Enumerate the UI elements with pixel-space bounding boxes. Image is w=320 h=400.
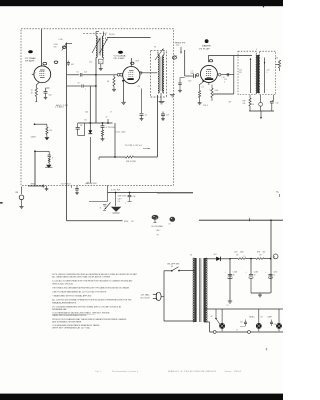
svg-text:R17: R17 bbox=[235, 252, 238, 254]
svg-text:Fig. 7: Fig. 7 bbox=[96, 371, 102, 373]
svg-text:V2 6CB6A: V2 6CB6A bbox=[114, 55, 127, 58]
svg-text:.01: .01 bbox=[145, 115, 147, 117]
svg-text:4.5: 4.5 bbox=[99, 62, 101, 64]
svg-text:C11: C11 bbox=[224, 79, 227, 81]
svg-text:T4: T4 bbox=[190, 255, 192, 257]
svg-text:WITH SET OPERATING AT 117 V AC: WITH SET OPERATING AT 117 V AC bbox=[52, 327, 91, 330]
svg-text:470: 470 bbox=[239, 72, 242, 74]
svg-text:WAFER SWITCH SHOWN IN AM POSIT: WAFER SWITCH SHOWN IN AM POSITION bbox=[52, 314, 86, 317]
svg-text:1.5: 1.5 bbox=[191, 71, 193, 73]
svg-text:TEST PT: TEST PT bbox=[175, 42, 187, 44]
svg-text:T2: T2 bbox=[154, 47, 156, 49]
svg-text:60 CYCLE: 60 CYCLE bbox=[141, 297, 151, 299]
svg-text:1000: 1000 bbox=[240, 252, 244, 254]
svg-text:C19: C19 bbox=[166, 115, 169, 117]
svg-text:AM 7: AM 7 bbox=[157, 229, 161, 232]
svg-text:5: 5 bbox=[35, 72, 36, 74]
svg-text:K: K bbox=[52, 158, 53, 160]
svg-text:TP2: TP2 bbox=[176, 45, 179, 47]
svg-text:270: 270 bbox=[275, 58, 278, 60]
svg-text:21: 21 bbox=[105, 33, 107, 35]
svg-text:C15 .005: C15 .005 bbox=[116, 131, 126, 133]
svg-text:* MEASURED WITH NO SIGNAL APPL: * MEASURED WITH NO SIGNAL APPLIED bbox=[52, 295, 92, 298]
svg-text:C16: C16 bbox=[276, 103, 279, 105]
svg-text:C15: C15 bbox=[267, 70, 270, 72]
svg-text:MEASUREMENTS: MEASUREMENTS bbox=[52, 301, 77, 304]
svg-text:ON-OFF SW: ON-OFF SW bbox=[167, 263, 180, 265]
svg-text:40: 40 bbox=[233, 274, 235, 276]
svg-text:VID. IF AMP: VID. IF AMP bbox=[114, 57, 126, 60]
svg-text:LINE VOLTAGE MAINTAINED AT 117: LINE VOLTAGE MAINTAINED AT 117 VOLTS AC … bbox=[52, 291, 107, 294]
svg-text:MINIMUM: MINIMUM bbox=[52, 309, 66, 311]
svg-text:TO PIN 1 OF V4: TO PIN 1 OF V4 bbox=[125, 145, 142, 147]
svg-text:4700: 4700 bbox=[124, 221, 128, 223]
svg-text:C6: C6 bbox=[80, 125, 82, 127]
svg-text:C10: C10 bbox=[188, 81, 191, 83]
svg-text:.001: .001 bbox=[71, 64, 74, 66]
svg-text:12AX7: 12AX7 bbox=[31, 135, 36, 138]
svg-text:5: 5 bbox=[267, 72, 268, 74]
svg-text:Schematic (cont.): Schematic (cont.) bbox=[112, 370, 138, 373]
svg-text:RADIO & TELEVISION NEWS: RADIO & TELEVISION NEWS bbox=[168, 370, 217, 373]
svg-text:SHOULD HOLD: SHOULD HOLD bbox=[52, 283, 74, 285]
svg-text:V4B OSC: V4B OSC bbox=[118, 196, 128, 198]
svg-text:TO PIN 3: TO PIN 3 bbox=[61, 183, 71, 185]
svg-text:NOTE: UNLESS OTHERWISE SPECIFI: NOTE: UNLESS OTHERWISE SPECIFIED ALL RES… bbox=[52, 273, 138, 276]
svg-text:117 VAC: 117 VAC bbox=[141, 294, 151, 297]
svg-text:C18: C18 bbox=[133, 196, 136, 198]
svg-text:5: 5 bbox=[224, 82, 225, 84]
svg-text:22 (2L): 22 (2L) bbox=[109, 34, 115, 36]
svg-text:VOLTAGE AND RESISTANCE READING: VOLTAGE AND RESISTANCE READINGS TAKEN bbox=[52, 324, 100, 327]
svg-text:S3: S3 bbox=[171, 266, 173, 268]
svg-text:470: 470 bbox=[263, 252, 266, 254]
svg-text:C5: C5 bbox=[77, 71, 79, 73]
svg-text:NO SIGNAL: NO SIGNAL bbox=[152, 225, 164, 228]
svg-text:THE SYMBOL (FD) DESIGNATES A F: THE SYMBOL (FD) DESIGNATES A FEEDTHROUGH… bbox=[52, 286, 130, 289]
svg-text:470: 470 bbox=[54, 47, 57, 49]
svg-text:150: 150 bbox=[49, 94, 52, 96]
svg-text:22: 22 bbox=[106, 117, 108, 119]
svg-text:20: 20 bbox=[273, 274, 275, 276]
svg-text:20: 20 bbox=[254, 274, 256, 276]
svg-text:AND SCHEMATIC SHOWN HERE: AND SCHEMATIC SHOWN HERE bbox=[52, 320, 82, 323]
svg-text:4.7K R6: 4.7K R6 bbox=[106, 127, 115, 129]
svg-text:4.7K R9: 4.7K R9 bbox=[111, 189, 120, 191]
svg-text:SE-1: SE-1 bbox=[214, 254, 218, 256]
svg-text:ALL CONTROLS AT NORMAL OPERATI: ALL CONTROLS AT NORMAL OPERATING POSITIO… bbox=[52, 299, 132, 302]
svg-text:C14: C14 bbox=[239, 70, 242, 72]
svg-text:V3 IF-AF: V3 IF-AF bbox=[199, 47, 211, 50]
svg-text:June, 1954: June, 1954 bbox=[224, 371, 242, 373]
svg-text:R8 470K: R8 470K bbox=[126, 161, 137, 163]
svg-text:K-1,000 ALL VOLTAGES READ WITH: K-1,000 ALL VOLTAGES READ WITH VTVM FROM… bbox=[52, 280, 132, 283]
svg-text:PRODUCTION CHANGES MAY CAUSE M: PRODUCTION CHANGES MAY CAUSE MINOR VARIA… bbox=[52, 318, 127, 321]
svg-text:100: 100 bbox=[118, 201, 121, 203]
svg-text:1.5 AGC: 1.5 AGC bbox=[55, 106, 65, 109]
svg-text:C31: C31 bbox=[274, 324, 277, 326]
svg-text:R16: R16 bbox=[243, 101, 246, 103]
svg-text:5-25: 5-25 bbox=[84, 71, 87, 73]
svg-text:[C2: [C2 bbox=[90, 61, 93, 63]
svg-text:C14: C14 bbox=[85, 112, 88, 114]
svg-text:ALL CAPACITANCE VALUES LESS TH: ALL CAPACITANCE VALUES LESS THAN 1 IN MF… bbox=[52, 276, 110, 279]
svg-text:C30: C30 bbox=[240, 322, 243, 324]
svg-text:12: 12 bbox=[227, 305, 229, 307]
svg-text:M1: M1 bbox=[85, 120, 87, 122]
svg-text:2.2: 2.2 bbox=[202, 87, 204, 89]
svg-text:12K .5: 12K .5 bbox=[203, 105, 208, 107]
svg-text:6AW8: 6AW8 bbox=[202, 44, 211, 47]
svg-text:RF AMP: RF AMP bbox=[25, 59, 36, 62]
svg-text:C6: C6 bbox=[78, 83, 80, 85]
svg-text:TP: TP bbox=[31, 90, 33, 92]
svg-text:47: 47 bbox=[100, 208, 102, 210]
svg-text:C8: C8 bbox=[138, 86, 140, 88]
svg-text:1.5: 1.5 bbox=[244, 256, 246, 258]
svg-text:S4: S4 bbox=[211, 316, 213, 318]
svg-text:17: 17 bbox=[110, 112, 112, 114]
svg-text:S2: S2 bbox=[169, 224, 171, 226]
svg-text:R18: R18 bbox=[257, 252, 260, 254]
svg-text:DC VOLTAGES MEASURED WITH NO S: DC VOLTAGES MEASURED WITH NO SIGNAL INPU… bbox=[52, 305, 122, 308]
svg-text:#47: #47 bbox=[260, 317, 263, 319]
svg-text:4: 4 bbox=[256, 49, 257, 51]
svg-text:S1: S1 bbox=[87, 183, 89, 185]
svg-text:C26B: C26B bbox=[254, 272, 258, 274]
